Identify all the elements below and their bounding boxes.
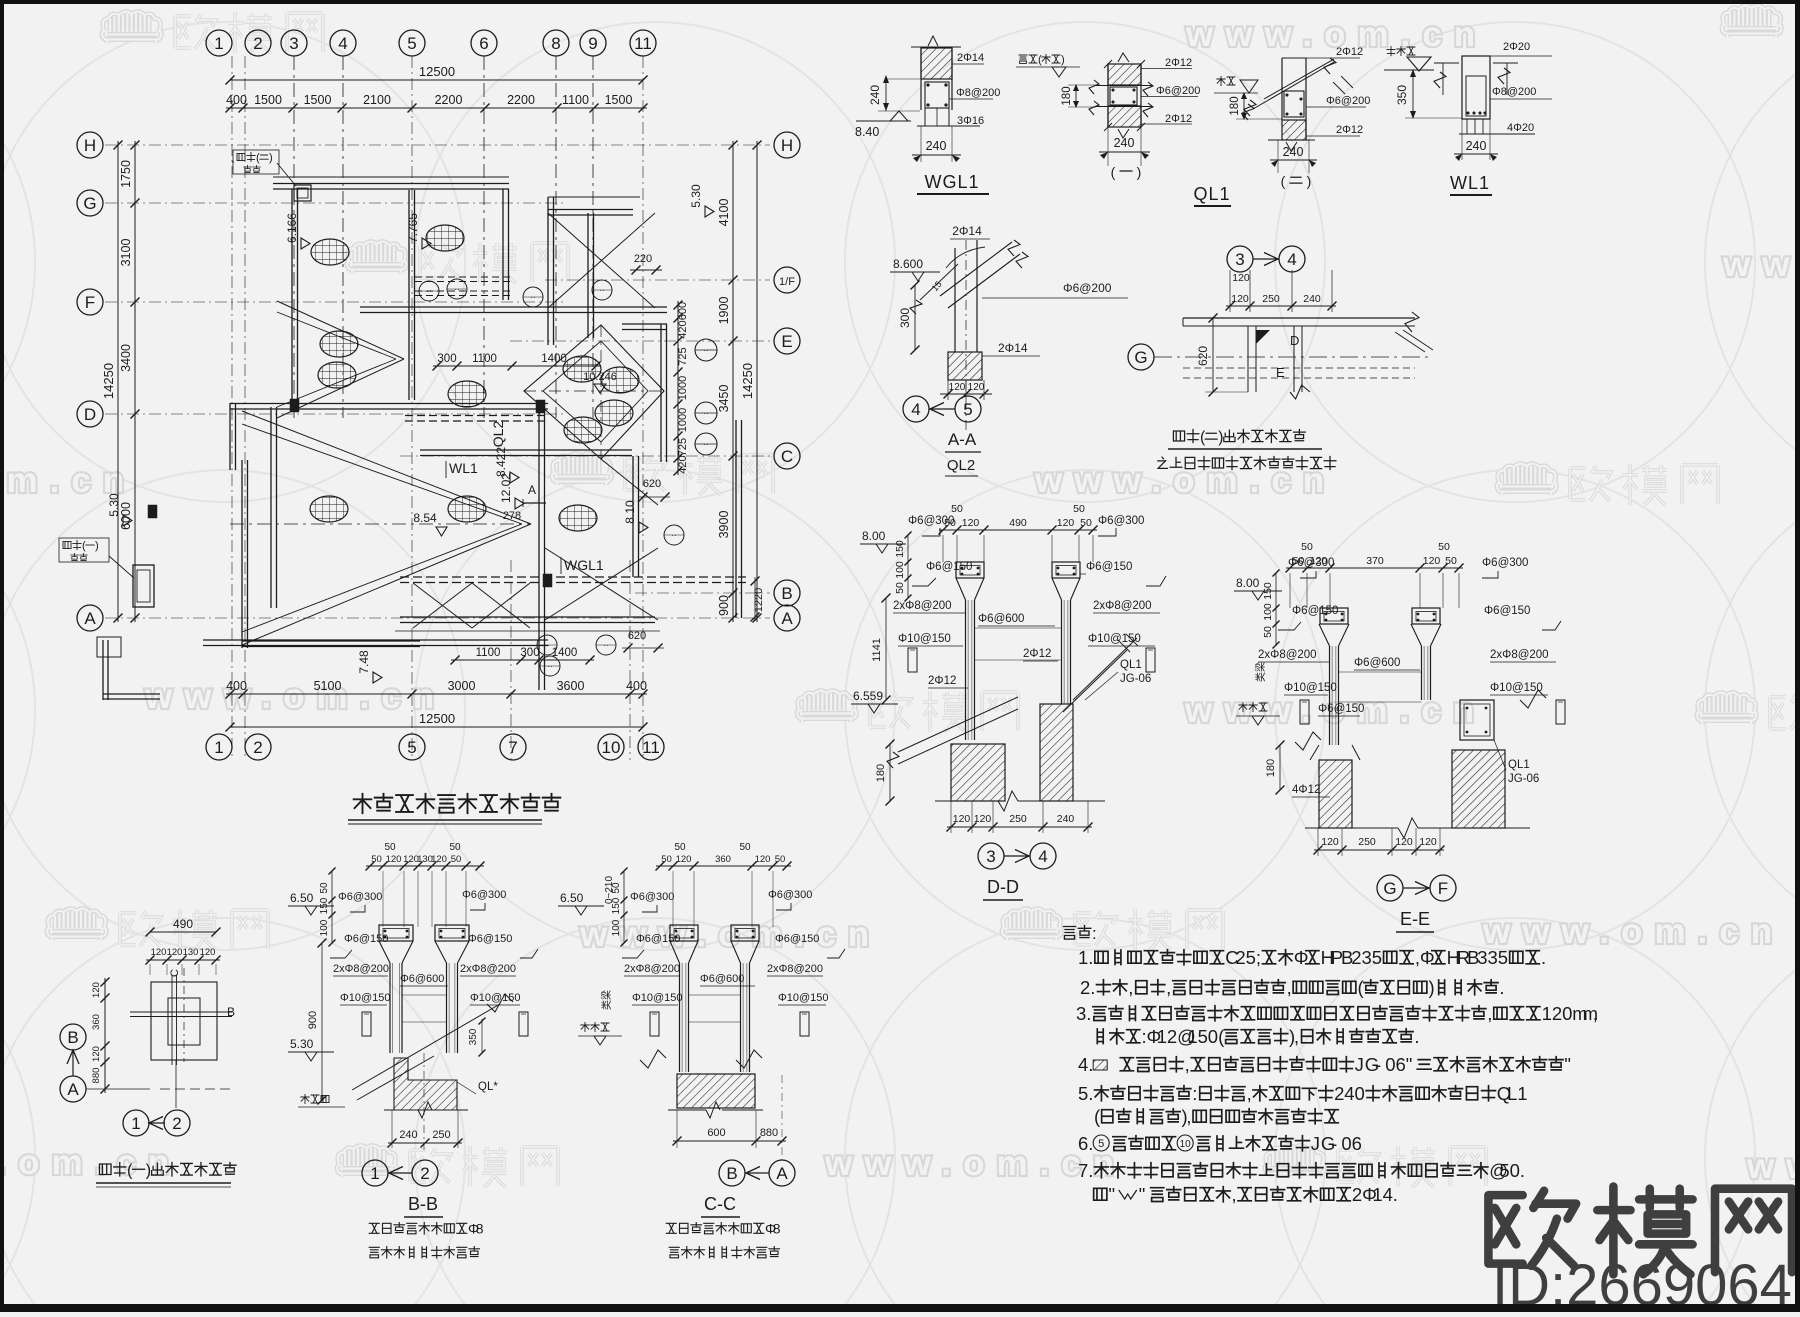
svg-text:Φ10@150: Φ10@150 [1490, 682, 1543, 694]
svg-text:3600: 3600 [557, 679, 585, 693]
D-D bottom dims [950, 801, 952, 833]
svg-text:150: 150 [319, 897, 330, 914]
C-C left dim column [623, 871, 625, 943]
svg-text:QL2: QL2 [947, 457, 975, 474]
svg-text:): ) [269, 152, 273, 164]
sub-room dashed walls at 1/F [415, 276, 510, 278]
svg-text:1750: 1750 [119, 160, 133, 188]
QL1 er 180 dim [1243, 93, 1245, 119]
svg-text:E-E: E-E [1400, 909, 1430, 929]
svg-text:3: 3 [1362, 947, 1372, 968]
svg-text:3: 3 [1235, 250, 1244, 269]
svg-text:8: 8 [773, 1221, 781, 1237]
svg-text:Φ6@300: Φ6@300 [462, 889, 506, 901]
svg-text:2: 2 [253, 738, 262, 757]
svg-text:240: 240 [1057, 813, 1075, 825]
left lower appendix [102, 640, 104, 700]
vertical grid lines [231, 56, 233, 760]
detail QL1 (yi) [1107, 64, 1109, 127]
svg-text:1500: 1500 [605, 93, 633, 107]
E-E bubbles G -> F [1377, 875, 1403, 901]
svg-text:.: . [1088, 1083, 1093, 1104]
svg-text:G: G [83, 194, 96, 213]
svg-text:0: 0 [1355, 1083, 1365, 1104]
svg-text:): ) [1307, 173, 1312, 189]
svg-text:-: - [1375, 1054, 1381, 1075]
svg-text:A: A [84, 609, 96, 628]
svg-text:1: 1 [1542, 1003, 1552, 1024]
svg-text:B: B [726, 1164, 737, 1183]
svg-text:0: 0 [1562, 1003, 1572, 1024]
svg-text:5: 5 [407, 738, 416, 757]
svg-text:Φ6@150: Φ6@150 [1086, 561, 1132, 573]
partition walls upper wings [408, 190, 410, 400]
svg-text:5.30: 5.30 [107, 493, 121, 517]
svg-text:8.422: 8.422 [494, 447, 508, 477]
svg-text:5: 5 [1098, 1138, 1104, 1150]
left dimension chains [134, 141, 136, 622]
svg-text:··: ·· [454, 285, 459, 294]
D-D bases [951, 744, 1005, 801]
svg-text:1000: 1000 [677, 408, 689, 432]
chimney walls below slab [1247, 326, 1249, 392]
svg-text:120: 120 [1419, 836, 1437, 848]
svg-text:JG-06: JG-06 [1508, 773, 1539, 785]
svg-text:A: A [67, 1080, 79, 1099]
B-B roof board label [301, 1094, 309, 1103]
chimney1 title [99, 1164, 111, 1174]
svg-text:4: 4 [1078, 1054, 1088, 1075]
svg-text:G: G [1383, 879, 1396, 898]
svg-text:(: ( [256, 152, 260, 164]
svg-text:(: ( [1111, 164, 1116, 180]
svg-text:C: C [781, 447, 793, 466]
C-C bottom dims [781, 1075, 783, 1160]
svg-text:JG-06: JG-06 [1120, 673, 1151, 685]
grid bubbles top [206, 30, 232, 56]
svg-text:120: 120 [974, 813, 992, 825]
svg-text:120: 120 [1231, 293, 1249, 305]
svg-text:3400: 3400 [119, 344, 133, 372]
svg-text:3: 3 [1076, 1003, 1086, 1024]
svg-text:50: 50 [371, 854, 382, 865]
svg-text:12500: 12500 [419, 711, 455, 726]
svg-text:Φ6@150: Φ6@150 [1484, 605, 1530, 617]
svg-text:Φ6@150: Φ6@150 [636, 933, 680, 945]
svg-text:420: 420 [677, 320, 689, 338]
svg-text:Φ10@150: Φ10@150 [1284, 682, 1337, 694]
bottom room walls [400, 576, 746, 578]
svg-text:Φ6@300: Φ6@300 [908, 515, 954, 527]
svg-text:3: 3 [289, 34, 298, 53]
B-B slope break [352, 1004, 500, 1090]
svg-text:2Φ12: 2Φ12 [1336, 46, 1363, 58]
svg-text:300: 300 [437, 353, 456, 365]
svg-text:": " [1564, 1054, 1571, 1075]
svg-text:4: 4 [1383, 1184, 1393, 1205]
svg-text:4: 4 [338, 34, 347, 53]
svg-text:QL*: QL* [478, 1081, 498, 1093]
svg-text:2xΦ8@200: 2xΦ8@200 [333, 963, 389, 975]
svg-text:250: 250 [1009, 813, 1027, 825]
svg-text:(: ( [1094, 1106, 1101, 1127]
svg-text:50: 50 [894, 582, 906, 594]
svg-text:5.30: 5.30 [290, 1037, 314, 1051]
page border frame [0, 0, 1800, 4]
svg-text:3Φ16: 3Φ16 [957, 115, 984, 127]
top dimension chains [230, 79, 643, 81]
svg-text:Φ10@150: Φ10@150 [1088, 633, 1141, 645]
svg-text:50: 50 [739, 842, 751, 853]
svg-text:B: B [781, 584, 792, 603]
B-B bottom dims [391, 1110, 393, 1148]
svg-text::: : [1192, 1083, 1197, 1104]
svg-text:250: 250 [1358, 836, 1376, 848]
svg-text:2Φ14: 2Φ14 [998, 341, 1028, 355]
svg-text:8: 8 [476, 1221, 484, 1237]
svg-text:5: 5 [1499, 1160, 1509, 1181]
svg-text:2Φ14: 2Φ14 [952, 224, 982, 238]
svg-text:(: ( [1038, 54, 1042, 66]
svg-text:400: 400 [226, 93, 247, 107]
svg-text:150: 150 [894, 540, 906, 558]
svg-text:Φ6@300: Φ6@300 [1288, 557, 1334, 569]
grid bubbles right [774, 132, 800, 158]
svg-text:7.48: 7.48 [357, 650, 371, 674]
QL1 yi 180 dim [1075, 85, 1077, 107]
620 dim [1212, 318, 1214, 392]
QL1 yi slab lines [1096, 85, 1152, 87]
svg-text:E: E [781, 332, 792, 351]
svg-text:Φ6@600: Φ6@600 [400, 973, 444, 985]
svg-text:2Φ12: 2Φ12 [1165, 113, 1192, 125]
svg-text:··: ·· [603, 641, 608, 650]
svg-text:··: ·· [599, 286, 604, 295]
svg-text:): ) [1137, 164, 1142, 180]
top dims [1229, 270, 1231, 312]
svg-text:): ) [95, 540, 99, 552]
svg-text:2: 2 [172, 1114, 181, 1133]
svg-text:3900: 3900 [717, 511, 731, 539]
big watermark logo 欧模网 [1488, 1187, 1792, 1275]
svg-text:350: 350 [468, 1028, 479, 1045]
svg-text:1: 1 [1157, 1026, 1167, 1047]
svg-text:Φ6@300: Φ6@300 [1482, 557, 1528, 569]
svg-text:120: 120 [431, 854, 447, 865]
svg-text:,: , [1487, 1003, 1492, 1024]
svg-text:G: G [1134, 348, 1147, 367]
svg-text:6: 6 [1396, 1054, 1406, 1075]
svg-text:420: 420 [677, 455, 689, 473]
svg-text:5.30: 5.30 [689, 184, 703, 208]
svg-text:5: 5 [963, 400, 972, 419]
roof diagonals: left-middle wing small hip [277, 301, 404, 359]
svg-text:B: B [67, 1028, 78, 1047]
svg-text:F: F [1438, 879, 1448, 898]
svg-text:11: 11 [634, 34, 652, 53]
svg-text:1: 1 [1372, 1184, 1382, 1205]
svg-text:4Φ12: 4Φ12 [1292, 784, 1320, 796]
svg-text:10.246: 10.246 [583, 371, 617, 383]
svg-text:50: 50 [1080, 517, 1092, 529]
chimney1: top dim 490 [150, 931, 216, 933]
svg-text:Φ6@300: Φ6@300 [768, 889, 812, 901]
svg-text:类梁: 类梁 [1254, 662, 1267, 682]
svg-text:··: ·· [703, 440, 708, 449]
svg-text:100: 100 [1262, 603, 1274, 621]
svg-text:L: L [1507, 1083, 1517, 1104]
E-E bases [1319, 760, 1352, 828]
svg-text:": " [1139, 1184, 1146, 1205]
svg-text:50: 50 [1262, 626, 1274, 638]
svg-text:,: , [1128, 977, 1133, 998]
G axis [1128, 344, 1154, 370]
svg-text:B-B: B-B [408, 1194, 438, 1214]
chimney1 left dims [104, 978, 106, 1093]
svg-text:50: 50 [1301, 541, 1313, 553]
svg-text:WGL1: WGL1 [924, 172, 979, 192]
svg-text:2: 2 [1080, 977, 1090, 998]
QL1 er bottom dim [1277, 140, 1279, 173]
walls: right wing bands [360, 306, 667, 308]
right dimension chains [732, 141, 734, 622]
svg-text:7: 7 [1078, 1160, 1088, 1181]
svg-text:··: ·· [547, 662, 552, 671]
svg-text:1500: 1500 [304, 93, 332, 107]
svg-text:1: 1 [1517, 1083, 1527, 1104]
svg-text:,: , [1166, 977, 1171, 998]
svg-text:,: , [1593, 1003, 1598, 1024]
svg-text:2: 2 [420, 1164, 429, 1183]
svg-text:370: 370 [1366, 555, 1384, 567]
svg-text:1/F: 1/F [779, 276, 795, 288]
svg-text:··: ·· [530, 293, 535, 302]
svg-text:240: 240 [926, 139, 947, 153]
svg-text:4100: 4100 [717, 199, 731, 227]
arc + 2phi14 leader [946, 247, 985, 268]
svg-text:50: 50 [661, 854, 672, 865]
svg-text:;: ; [1256, 947, 1261, 968]
svg-text:120: 120 [386, 854, 402, 865]
svg-text:3: 3 [986, 847, 995, 866]
svg-text::: : [1092, 924, 1097, 943]
svg-text:H: H [781, 136, 793, 155]
D-D ties [975, 627, 1062, 629]
svg-text:,: , [1294, 1026, 1299, 1047]
svg-text:H: H [84, 136, 96, 155]
QL1 er slope lines [1253, 62, 1334, 109]
svg-text:.: . [1086, 1003, 1091, 1024]
svg-text:100: 100 [319, 919, 330, 936]
svg-text:.: . [1541, 947, 1546, 968]
svg-text:3: 3 [1488, 947, 1498, 968]
svg-text:D: D [84, 405, 96, 424]
note line [1094, 1188, 1107, 1200]
svg-text:,: , [1232, 1184, 1237, 1205]
C-C caps [670, 925, 698, 941]
svg-text:2xΦ8@200: 2xΦ8@200 [893, 600, 952, 612]
svg-text:.: . [1414, 1026, 1419, 1047]
svg-text:A: A [528, 483, 536, 497]
svg-text:880: 880 [91, 1068, 102, 1084]
svg-text:8.54: 8.54 [413, 511, 437, 525]
svg-text:Φ6@600: Φ6@600 [1354, 657, 1400, 669]
svg-text:,: , [1287, 977, 1292, 998]
roof diagonals: top-center [548, 213, 655, 308]
svg-text:E: E [1276, 365, 1285, 380]
walls: top-middle wing [548, 196, 640, 198]
svg-text:1400: 1400 [541, 353, 567, 365]
svg-text:240: 240 [1283, 145, 1304, 159]
svg-text:2: 2 [1352, 1184, 1362, 1205]
slab lines [1183, 317, 1415, 319]
svg-text:www.om.cn: www.om.cn [144, 677, 446, 716]
svg-text:Φ6@200: Φ6@200 [1063, 281, 1112, 295]
svg-text:240: 240 [1303, 293, 1321, 305]
svg-text:2Φ20: 2Φ20 [1503, 41, 1530, 53]
detail WL1 [1387, 46, 1395, 55]
E-E QL1 box right [1460, 700, 1494, 740]
svg-text:··: ·· [703, 409, 708, 418]
svg-text:220: 220 [634, 253, 652, 265]
svg-text:.: . [1088, 1054, 1093, 1075]
svg-text:www.om.cn: www.om.cn [0, 1143, 181, 1182]
chimney(1) rect [133, 565, 154, 607]
callout chimney 2 [237, 153, 245, 160]
svg-text:6.166: 6.166 [285, 213, 299, 243]
svg-text:10: 10 [1180, 1139, 1192, 1150]
watermark logos [102, 12, 323, 53]
svg-text:1: 1 [131, 1114, 140, 1133]
walls: upper-left wing [273, 176, 509, 178]
svg-text:): ) [1061, 54, 1065, 66]
svg-text:300: 300 [520, 647, 539, 659]
svg-text:4: 4 [1344, 1083, 1354, 1104]
svg-text:6.559: 6.559 [853, 689, 883, 703]
svg-text:2Φ14: 2Φ14 [957, 52, 984, 64]
svg-text:2: 2 [253, 34, 262, 53]
skylight ellipses [311, 239, 349, 265]
svg-text:8.600: 8.600 [893, 257, 923, 271]
section A-A wall [954, 248, 956, 352]
svg-text:QL2: QL2 [490, 421, 506, 448]
svg-text:Φ6@150: Φ6@150 [1292, 605, 1338, 617]
svg-text:8: 8 [551, 34, 560, 53]
svg-text:2200: 2200 [507, 93, 535, 107]
svg-text:4Φ20: 4Φ20 [1507, 122, 1534, 134]
svg-text:(: ( [1200, 429, 1206, 446]
svg-text:400: 400 [626, 679, 647, 693]
svg-text:.: . [1520, 1160, 1525, 1181]
svg-text:14250: 14250 [740, 363, 755, 399]
svg-text:5100: 5100 [314, 679, 342, 693]
roof X bottom-right room [545, 548, 658, 620]
svg-text:): ) [146, 1161, 151, 1179]
svg-text:2xΦ8@200: 2xΦ8@200 [1490, 649, 1549, 661]
plan inner dims [433, 365, 600, 367]
svg-text:180: 180 [875, 764, 887, 782]
svg-text:240: 240 [399, 1129, 417, 1141]
svg-text:0: 0 [1341, 1133, 1351, 1154]
svg-text:QL1: QL1 [1193, 184, 1230, 204]
svg-text:278: 278 [503, 510, 521, 522]
E-E bottom dims [1317, 828, 1319, 856]
svg-text:150: 150 [611, 897, 622, 914]
svg-text:9: 9 [588, 34, 597, 53]
D-D caps [956, 562, 984, 578]
svg-text:Φ10@150: Φ10@150 [632, 992, 683, 1004]
svg-text:Φ8@200: Φ8@200 [1492, 86, 1536, 98]
svg-text:490: 490 [173, 917, 193, 931]
svg-text:2: 2 [1235, 947, 1245, 968]
svg-text:3100: 3100 [119, 239, 133, 267]
svg-text:120: 120 [1423, 555, 1441, 567]
B-B bubbles 1 <- 2 [362, 1160, 388, 1186]
svg-text:12.02: 12.02 [499, 473, 513, 503]
svg-text:120: 120 [755, 854, 771, 865]
svg-text:1100: 1100 [476, 647, 501, 659]
svg-text:www.om.cn: www.om.cn [1746, 1147, 1800, 1186]
svg-text:900: 900 [307, 1011, 319, 1029]
svg-text:620: 620 [1196, 346, 1210, 366]
svg-text:50: 50 [451, 854, 462, 865]
svg-text:A: A [776, 1164, 788, 1183]
svg-text:B: B [227, 1005, 235, 1019]
right sub dimension chain 600/420/725/1000/1000/725/420 [677, 301, 679, 475]
svg-text:1: 1 [214, 738, 223, 757]
roof diamond right wing [524, 325, 664, 459]
svg-text:50: 50 [1445, 555, 1457, 567]
svg-text:50: 50 [384, 842, 396, 853]
bubbles 3 -> 4 [1227, 246, 1253, 272]
svg-text:5: 5 [1078, 1083, 1088, 1104]
svg-text:5: 5 [1498, 947, 1508, 968]
svg-text:2: 2 [1334, 1083, 1344, 1104]
svg-text:Φ6@200: Φ6@200 [1156, 85, 1200, 97]
grid bubbles bottom [206, 734, 232, 760]
D-D roof slope break lines [898, 697, 1018, 752]
svg-text:1141: 1141 [871, 638, 883, 662]
svg-text:.: . [1088, 1160, 1093, 1181]
svg-text:180: 180 [1229, 96, 1241, 115]
svg-text:50: 50 [951, 503, 963, 515]
svg-text:A-A: A-A [948, 430, 977, 449]
svg-text:2: 2 [1552, 1003, 1562, 1024]
bubbles 4 <- 5 [903, 396, 929, 422]
svg-text:4: 4 [1287, 250, 1296, 269]
svg-text:Φ6@150: Φ6@150 [775, 933, 819, 945]
svg-text:725: 725 [677, 438, 689, 456]
callout chimney 1 [63, 541, 71, 548]
chimney1 plan rects [151, 982, 217, 1060]
svg-text:120: 120 [151, 947, 167, 958]
svg-text:2xΦ8@200: 2xΦ8@200 [624, 963, 680, 975]
svg-text:5: 5 [1246, 947, 1256, 968]
svg-text:-: - [1331, 1133, 1337, 1154]
B-B 350 dim [481, 1019, 483, 1053]
svg-text:11: 11 [642, 738, 660, 757]
svg-text:360: 360 [91, 1014, 102, 1030]
svg-text:(: ( [82, 540, 86, 552]
chimney1 bottom bubbles 1 <- 2 [175, 1060, 177, 1108]
svg-text:600: 600 [707, 1127, 725, 1139]
svg-text:): ) [1429, 977, 1435, 998]
horizontal grid lines [105, 144, 770, 146]
svg-text:7.765: 7.765 [406, 213, 420, 243]
svg-text:360: 360 [715, 854, 731, 865]
svg-text:": " [1109, 1184, 1116, 1205]
svg-text:2xΦ8@200: 2xΦ8@200 [460, 963, 516, 975]
